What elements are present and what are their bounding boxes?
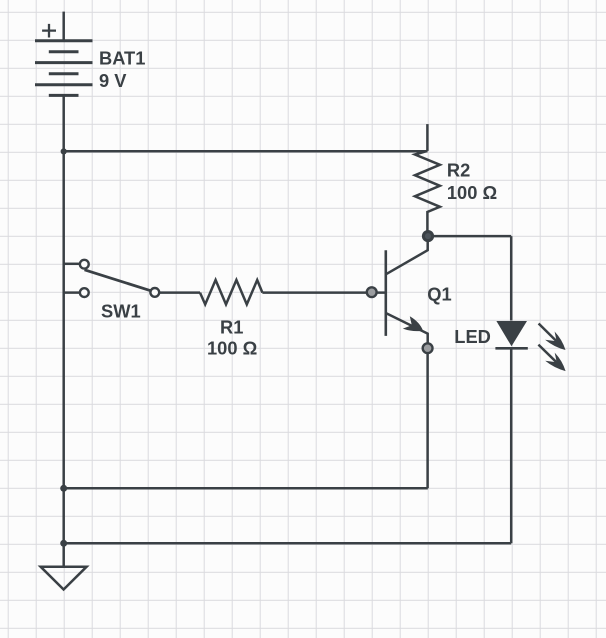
svg-text:R1: R1: [220, 316, 243, 337]
svg-text:Q1: Q1: [427, 284, 451, 305]
svg-text:R2: R2: [447, 160, 470, 181]
svg-text:9 V: 9 V: [99, 70, 127, 91]
svg-text:100 Ω: 100 Ω: [447, 182, 497, 203]
svg-text:BAT1: BAT1: [99, 47, 145, 68]
svg-text:SW1: SW1: [101, 301, 141, 322]
svg-text:100 Ω: 100 Ω: [207, 337, 257, 358]
svg-text:LED: LED: [454, 326, 491, 347]
